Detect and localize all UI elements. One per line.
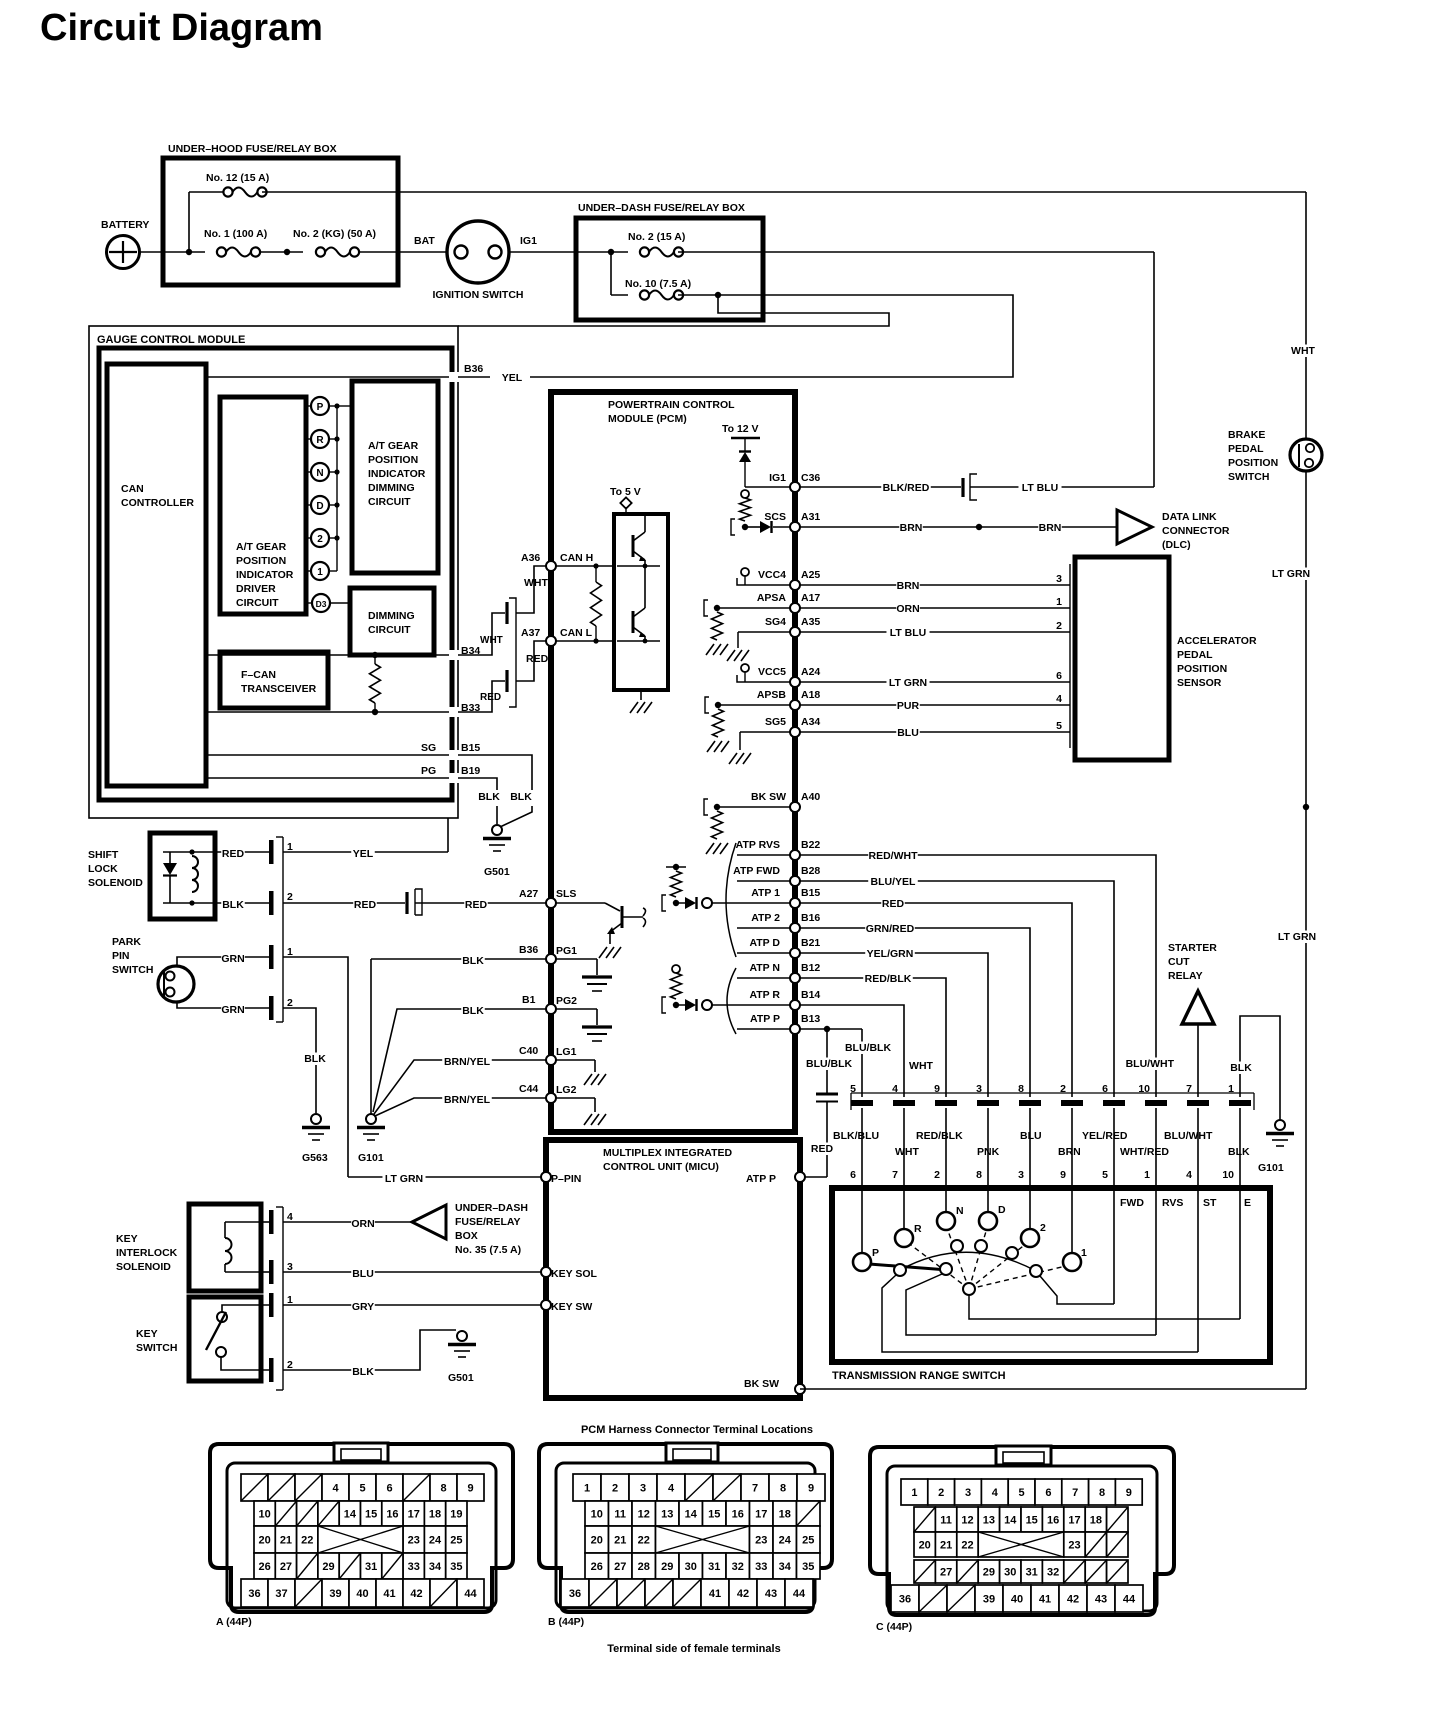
svg-text:POSITION: POSITION [1177,663,1227,675]
multiplex integrated control unit (MICU) box [546,1140,800,1398]
battery [107,236,140,269]
wire YEL label [458,376,490,378]
svg-text:BLU: BLU [352,1268,374,1280]
svg-text:B21: B21 [801,937,820,949]
svg-text:A34: A34 [801,716,820,728]
svg-text:DRIVER: DRIVER [236,583,276,595]
svg-text:C44: C44 [519,1083,538,1095]
svg-text:GRN: GRN [221,1004,244,1016]
under-dash fuse/relay box [576,218,763,320]
svg-text:RELAY: RELAY [1168,970,1203,982]
svg-text:23: 23 [408,1535,420,1547]
svg-text:20: 20 [919,1540,931,1552]
svg-text:BRN: BRN [1058,1146,1081,1158]
svg-text:BLK: BLK [222,899,244,911]
ground G101 right [1275,1120,1285,1130]
svg-text:DIMMING: DIMMING [368,610,415,622]
gauge module pin gaps [449,372,460,382]
svg-text:UNDER–DASH: UNDER–DASH [455,1202,528,1214]
svg-text:9: 9 [808,1483,814,1495]
svg-text:A24: A24 [801,666,820,678]
svg-text:BLK: BLK [510,791,532,803]
svg-text:B (44P): B (44P) [548,1616,584,1628]
contact 2 [1021,1229,1039,1247]
svg-text:7: 7 [752,1483,758,1495]
svg-text:7: 7 [1072,1487,1078,1499]
svg-text:1: 1 [584,1483,590,1495]
svg-text:B14: B14 [801,989,820,1001]
svg-text:10: 10 [1138,1083,1150,1095]
svg-text:44: 44 [1123,1594,1136,1606]
svg-text:KEY: KEY [136,1328,158,1340]
svg-text:44: 44 [464,1588,477,1600]
svg-text:ATP 2: ATP 2 [751,912,780,924]
node between fuses [284,249,290,255]
svg-text:2: 2 [1040,1222,1046,1234]
wire BLK key switch to G501 [283,1330,456,1370]
svg-text:43: 43 [765,1588,777,1600]
svg-text:15: 15 [1026,1515,1038,1527]
svg-text:8: 8 [1018,1083,1024,1095]
pin B13 ATP P [737,1028,790,1030]
svg-text:FWD: FWD [1120,1197,1144,1209]
svg-text:39: 39 [329,1588,341,1600]
svg-text:POSITION: POSITION [236,555,286,567]
svg-text:7: 7 [1186,1083,1192,1095]
svg-text:BAT: BAT [414,235,435,247]
powertrain control module (PCM) box [551,392,795,1132]
pin 3 [269,1260,274,1284]
svg-text:11: 11 [940,1515,952,1527]
svg-text:PG: PG [421,765,436,777]
svg-text:42: 42 [410,1588,422,1600]
svg-text:22: 22 [301,1535,313,1547]
shift lock solenoid [150,833,215,919]
svg-text:4: 4 [892,1083,898,1095]
svg-text:P–PIN: P–PIN [551,1173,581,1185]
svg-text:33: 33 [755,1561,767,1573]
brake pedal position switch [1290,439,1322,471]
svg-text:C (44P): C (44P) [876,1621,912,1633]
pivot [963,1283,975,1295]
wire LT BLU [1018,486,1154,488]
svg-text:No. 10 (7.5 A): No. 10 (7.5 A) [625,278,691,290]
svg-text:BLK: BLK [352,1366,374,1378]
SG5 pin to ground [740,731,790,733]
svg-text:A/T GEAR: A/T GEAR [368,440,419,452]
wire BLU to MICU [283,1271,546,1273]
svg-text:BRAKE: BRAKE [1228,429,1265,441]
svg-text:B15: B15 [461,742,480,754]
svg-text:RED: RED [526,653,549,665]
triangle under-dash fuse box No.35 [412,1205,446,1239]
capacitor CAN H [505,602,508,624]
svg-text:B22: B22 [801,839,820,851]
svg-text:ST: ST [1203,1197,1217,1209]
svg-text:No. 35 (7.5 A): No. 35 (7.5 A) [455,1244,521,1256]
wire BLU/WHT relay to pin 7 [1197,1024,1199,1097]
svg-text:16: 16 [386,1509,398,1521]
svg-text:SG: SG [421,742,436,754]
svg-text:6: 6 [386,1483,392,1495]
transistor Q1 (CAN H driver) [644,514,646,532]
svg-text:ATP 1: ATP 1 [751,887,780,899]
svg-text:GRY: GRY [352,1301,374,1313]
F-CAN transceiver [220,652,328,708]
svg-text:21: 21 [280,1535,292,1547]
svg-text:GAUGE CONTROL MODULE: GAUGE CONTROL MODULE [97,334,245,346]
key switch [189,1297,261,1381]
svg-text:22: 22 [638,1535,650,1547]
svg-text:23: 23 [755,1535,767,1547]
svg-text:SOLENOID: SOLENOID [88,877,143,889]
svg-text:CAN L: CAN L [560,627,593,639]
connector C shell [870,1447,1174,1615]
svg-text:No. 2 (15 A): No. 2 (15 A) [628,231,685,243]
svg-text:BLK: BLK [1228,1146,1250,1158]
dimming circuit [350,588,434,655]
svg-text:10: 10 [1222,1169,1234,1181]
svg-text:18: 18 [429,1509,441,1521]
svg-text:D: D [998,1204,1006,1216]
contact N [937,1212,955,1230]
svg-text:C36: C36 [801,472,820,484]
pin 4 [269,1210,274,1234]
wire LT GRN to MICU [348,1176,546,1178]
svg-text:G501: G501 [484,866,510,878]
PCM right pin circles [790,482,800,492]
svg-text:PEDAL: PEDAL [1228,443,1264,455]
svg-text:20: 20 [259,1535,271,1547]
svg-text:29: 29 [322,1561,334,1573]
svg-text:LT GRN: LT GRN [1278,931,1316,943]
wire LT GRN to MICU BK SW [800,1388,1306,1390]
svg-text:INTERLOCK: INTERLOCK [116,1247,178,1259]
svg-text:LT GRN: LT GRN [889,677,927,689]
SG4 pin to ground [738,631,790,633]
capacitor on IG1 wire [961,478,964,497]
wire PG to ground [458,778,497,790]
svg-text:14: 14 [1004,1515,1017,1527]
svg-text:BLU/WHT: BLU/WHT [1126,1058,1175,1070]
svg-text:BLK: BLK [304,1053,326,1065]
wire BLU/YEL B28 to pin 6 [800,881,1114,1097]
wire battery to under-hood box [139,251,165,253]
svg-text:A27: A27 [519,888,538,900]
svg-text:CIRCUIT: CIRCUIT [368,496,411,508]
svg-text:16: 16 [732,1509,744,1521]
svg-text:CAN: CAN [121,483,144,495]
svg-text:VCC5: VCC5 [758,666,786,678]
svg-text:2: 2 [1056,620,1062,632]
rotor arm [869,1264,948,1270]
svg-text:ATP N: ATP N [749,962,780,974]
svg-text:BK SW: BK SW [751,791,786,803]
svg-text:To 12 V: To 12 V [722,423,759,435]
svg-text:CAN H: CAN H [560,552,593,564]
svg-text:IG1: IG1 [520,235,537,247]
connector C grid [901,1479,928,1505]
svg-text:P: P [317,402,324,413]
svg-text:ATP P: ATP P [746,1173,776,1185]
svg-text:30: 30 [1004,1567,1016,1579]
svg-text:40: 40 [1011,1594,1023,1606]
capacitor on SLS wire [405,892,408,914]
svg-text:BOX: BOX [455,1230,478,1242]
inner contacts [894,1264,906,1276]
svg-text:8: 8 [1099,1487,1105,1499]
pin B12 ATP N [737,977,790,979]
svg-text:LT BLU: LT BLU [1022,482,1059,494]
svg-text:RED/BLK: RED/BLK [865,973,912,985]
svg-text:A18: A18 [801,689,820,701]
ignition switch [447,221,509,283]
svg-text:3: 3 [640,1483,646,1495]
TRS inner wire RVS [906,1274,1156,1335]
wire branch to No.12 [188,192,190,252]
svg-text:RED: RED [465,899,488,911]
svg-text:B19: B19 [461,765,480,777]
dashed selector lines [907,1242,969,1289]
svg-text:P: P [872,1247,879,1259]
wire A37 RED [516,641,546,681]
contact D [979,1212,997,1230]
wire No.2 fuse to LT BLU (down right side) [1153,252,1155,487]
svg-text:D3: D3 [316,599,327,609]
svg-text:CONTROL UNIT (MICU): CONTROL UNIT (MICU) [603,1161,719,1173]
svg-text:32: 32 [732,1561,744,1573]
svg-text:POSITION: POSITION [368,454,418,466]
wire BLU/BLK B13 to pin 5 [800,1028,862,1030]
svg-text:A31: A31 [801,511,820,523]
svg-text:29: 29 [983,1567,995,1579]
svg-text:BRN/YEL: BRN/YEL [444,1056,491,1068]
svg-text:KEY SW: KEY SW [551,1301,592,1313]
diode inside shift lock solenoid [169,852,171,863]
svg-text:POWERTRAIN CONTROL: POWERTRAIN CONTROL [608,399,735,411]
svg-text:5: 5 [1019,1487,1025,1499]
wire BLU/BLK down to capacitor [826,1029,828,1093]
svg-text:BLU/BLK: BLU/BLK [845,1042,891,1054]
svg-text:B36: B36 [464,363,483,375]
svg-text:PARK: PARK [112,936,141,948]
svg-text:GRN/RED: GRN/RED [866,923,915,935]
svg-text:24: 24 [429,1535,442,1547]
svg-text:CONTROLLER: CONTROLLER [121,497,194,509]
svg-text:BLU: BLU [897,727,919,739]
svg-text:35: 35 [802,1561,814,1573]
svg-text:19: 19 [450,1509,462,1521]
wire key interlock to pins [261,1221,269,1223]
wire B34 WHT [458,613,505,655]
svg-text:27: 27 [614,1561,626,1573]
svg-text:ATP RVS: ATP RVS [736,839,780,851]
svg-text:8: 8 [780,1483,786,1495]
svg-text:BLU/WHT: BLU/WHT [1164,1130,1213,1142]
TRS inner wire E [969,1295,1240,1319]
wire G101 to LG2 BRN/YEL [375,1098,546,1116]
svg-text:31: 31 [365,1561,377,1573]
svg-text:A37: A37 [521,627,540,639]
svg-text:WHT: WHT [895,1146,919,1158]
svg-text:PUR: PUR [897,700,920,712]
svg-text:DIMMING: DIMMING [368,482,415,494]
pin B15 ATP 1 [737,902,790,904]
TRS inner wire FWD [1040,1276,1114,1304]
capacitor on ATP P wire [816,1093,838,1096]
A/T gear position indicator driver circuit [220,397,306,614]
svg-text:44: 44 [793,1588,806,1600]
contact P [853,1253,871,1271]
svg-text:A (44P): A (44P) [216,1616,252,1628]
svg-text:BLK: BLK [1230,1062,1252,1074]
wire WHT B14 to pin 4 [800,1005,904,1097]
svg-text:G101: G101 [358,1152,384,1164]
svg-text:10: 10 [591,1509,603,1521]
pin B16 ATP 2 [737,927,790,929]
PCM left pin circles [546,561,556,571]
svg-text:CIRCUIT: CIRCUIT [368,624,411,636]
starter cut relay [1182,991,1214,1024]
connector A grid [241,1474,268,1501]
svg-text:6: 6 [1045,1487,1051,1499]
svg-text:4: 4 [992,1487,999,1499]
svg-text:D: D [316,501,323,512]
svg-text:BK SW: BK SW [744,1378,779,1390]
svg-text:18: 18 [779,1509,791,1521]
svg-text:7: 7 [892,1169,898,1181]
svg-text:G101: G101 [1258,1162,1284,1174]
wire RED/WHT B22 to pin 10 [800,855,1156,1097]
wire park pin 1 to LT GRN [283,957,348,1177]
pin 1 [269,840,274,864]
svg-text:31: 31 [1026,1567,1038,1579]
svg-text:GRN: GRN [221,953,244,965]
gear indicator lamps P R N D 2 1 [306,405,311,407]
svg-text:RED: RED [354,899,377,911]
svg-text:28: 28 [638,1561,650,1573]
svg-text:9: 9 [934,1083,940,1095]
wire BLK/RED to A27 [215,902,269,904]
wires bars to TRS [861,1108,863,1253]
svg-text:APSB: APSB [757,689,787,701]
internal wire B36 rail [206,376,452,378]
internal CAN H rail [206,654,452,656]
svg-text:TRANSMISSION RANGE SWITCH: TRANSMISSION RANGE SWITCH [832,1370,1006,1382]
svg-text:To 5 V: To 5 V [610,486,641,498]
VCC5 pin [741,664,749,672]
svg-text:YEL: YEL [353,848,374,860]
svg-text:B28: B28 [801,865,820,877]
CAN bus resistor [595,566,597,582]
svg-text:WHT: WHT [524,577,548,589]
svg-text:LOCK: LOCK [88,863,118,875]
svg-text:16: 16 [1047,1515,1059,1527]
VCC4 pin [741,568,749,576]
BK SW pin with pull-down [717,806,790,808]
svg-text:3: 3 [965,1487,971,1499]
svg-text:39: 39 [983,1594,995,1606]
svg-text:B15: B15 [801,887,820,899]
svg-text:BRN/YEL: BRN/YEL [444,1094,491,1106]
svg-text:36: 36 [569,1588,581,1600]
svg-text:ACCELERATOR: ACCELERATOR [1177,635,1257,647]
svg-text:SENSOR: SENSOR [1177,677,1222,689]
pin 2 key switch [269,1358,274,1382]
svg-text:WHT: WHT [909,1060,933,1072]
wire YEL [283,851,448,853]
svg-text:WHT: WHT [1291,345,1315,357]
wire G101 to PG1 BLK [370,959,372,1114]
svg-text:1: 1 [1056,596,1062,608]
svg-text:22: 22 [961,1540,973,1552]
svg-text:No. 2 (KG) (50 A): No. 2 (KG) (50 A) [293,228,376,240]
pin B28 ATP FWD [737,880,790,882]
wire G101 to PG2 BLK [373,1009,546,1112]
svg-text:LG2: LG2 [556,1084,577,1096]
svg-text:26: 26 [259,1561,271,1573]
lamp D3 [306,602,311,604]
svg-text:SG5: SG5 [765,716,786,728]
svg-text:G501: G501 [448,1372,474,1384]
svg-text:A25: A25 [801,569,820,581]
svg-text:R: R [914,1223,922,1235]
svg-text:SWITCH: SWITCH [112,964,153,976]
svg-text:KEY: KEY [116,1233,138,1245]
wire GRN bottom [177,1002,269,1008]
svg-text:INDICATOR: INDICATOR [236,569,294,581]
pin 2 park [269,996,274,1020]
wire No.10 to gauge module top [458,295,889,326]
ATP pull-up 2 [672,965,680,973]
connector bracket shift lock / park pin [282,837,284,1022]
svg-text:PIN: PIN [112,950,130,962]
CAN controller [107,364,206,786]
svg-text:21: 21 [614,1535,626,1547]
svg-text:32: 32 [1047,1567,1059,1579]
svg-text:VCC4: VCC4 [758,569,786,581]
wire BRN to sensor pin 3 [800,584,1070,586]
wire GRN/RED B16 to pin 8 [800,928,1030,1097]
svg-text:BLU/BLK: BLU/BLK [806,1058,852,1070]
svg-text:SOLENOID: SOLENOID [116,1261,171,1273]
svg-text:41: 41 [709,1588,721,1600]
svg-text:2: 2 [287,891,293,903]
MICU pin circles [541,1172,551,1182]
svg-text:ATP D: ATP D [749,937,780,949]
ground below driver box [640,690,642,700]
connector bracket key area [282,1207,284,1390]
svg-text:2: 2 [612,1483,618,1495]
svg-text:Circuit Diagram: Circuit Diagram [40,7,323,49]
svg-text:11: 11 [614,1509,626,1521]
svg-text:BRN: BRN [1039,522,1062,534]
svg-text:25: 25 [802,1535,814,1547]
svg-text:15: 15 [708,1509,720,1521]
internal SG rail [206,754,452,756]
svg-text:PG2: PG2 [556,995,577,1007]
svg-text:2: 2 [934,1169,940,1181]
svg-text:43: 43 [1095,1594,1107,1606]
svg-text:ATP FWD: ATP FWD [733,865,780,877]
lamp bus wire [336,406,338,571]
svg-text:LT BLU: LT BLU [890,627,927,639]
svg-text:PCM Harness Connector Terminal: PCM Harness Connector Terminal Locations [581,1424,813,1436]
capacitor shield plate [509,598,516,707]
svg-text:BLK: BLK [462,955,484,967]
svg-text:27: 27 [940,1567,952,1579]
svg-text:MULTIPLEX INTEGRATED: MULTIPLEX INTEGRATED [603,1147,733,1159]
